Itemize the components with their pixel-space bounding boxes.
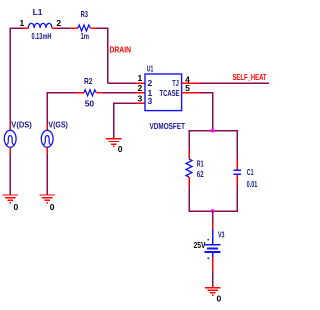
svg-text:SELF_HEAT: SELF_HEAT xyxy=(233,72,268,82)
svg-text:0: 0 xyxy=(50,202,55,212)
wire pin 5 to corner xyxy=(200,92,214,94)
resistor R3 pin 1 xyxy=(70,27,78,29)
wire drain to U1 pin 1 xyxy=(108,82,136,84)
V(DS) source pin top xyxy=(9,125,11,130)
U1 pin 4 stub xyxy=(182,82,200,84)
ground under V(DS) xyxy=(3,195,18,203)
svg-text:0: 0 xyxy=(217,294,222,304)
ground mid (0) xyxy=(106,139,121,147)
wire L1 to R3 xyxy=(58,27,70,29)
wire left vertical to V(DS) xyxy=(9,27,11,125)
ground bottom xyxy=(205,288,220,296)
V(DS) source pin bottom xyxy=(9,147,11,153)
svg-text:0: 0 xyxy=(14,202,19,212)
svg-text:TCASE: TCASE xyxy=(160,88,180,98)
wire drain vertical xyxy=(107,27,109,83)
wire tank left lower xyxy=(188,186,190,211)
wire U1 pin 3 to ground corner xyxy=(114,102,136,104)
wire down to tank top xyxy=(212,92,214,131)
capacitor C1 pin 1 xyxy=(236,159,238,170)
svg-text:R3: R3 xyxy=(81,9,89,19)
U1 pin 1 stub xyxy=(136,82,145,84)
wire tank bottom horizontal xyxy=(188,210,238,212)
svg-text:1: 1 xyxy=(138,73,143,83)
wire mid-ground vertical xyxy=(113,103,115,139)
svg-text:TJ: TJ xyxy=(172,78,179,88)
svg-text:3: 3 xyxy=(148,96,153,106)
wire tank left upper xyxy=(188,130,190,150)
wire junction to V3 xyxy=(212,211,214,222)
inductor L1 pin 2 xyxy=(52,27,58,29)
svg-text:2: 2 xyxy=(148,78,153,88)
V(GS) sine squiggle xyxy=(43,136,52,145)
wire V3 to ground xyxy=(212,270,214,287)
svg-text:0.13mH: 0.13mH xyxy=(32,31,52,41)
svg-text:50: 50 xyxy=(85,98,95,108)
capacitor C1 plates xyxy=(234,170,241,174)
svg-text:V(GS): V(GS) xyxy=(48,120,68,130)
svg-text:V3: V3 xyxy=(218,229,225,239)
wire tank right upper xyxy=(236,130,238,159)
inductor L1 pin 1 xyxy=(23,27,28,29)
svg-text:C1: C1 xyxy=(247,167,254,177)
capacitor C1 pin 2 xyxy=(236,175,238,185)
svg-text:2: 2 xyxy=(56,18,61,28)
svg-text:V(DS): V(DS) xyxy=(11,120,32,130)
V3 pin top xyxy=(212,222,214,229)
wire V(GS) to ground xyxy=(46,154,48,196)
svg-text:25V: 25V xyxy=(194,240,206,250)
V3 pin bottom xyxy=(212,258,214,271)
svg-text:L1: L1 xyxy=(33,7,43,17)
resistor R3 pin 2 xyxy=(90,27,96,29)
wire R2 to U1 pin 2 xyxy=(103,92,136,94)
resistor R1 pin 2 xyxy=(188,177,190,186)
svg-text:1: 1 xyxy=(20,18,25,28)
V(GS) source pin bottom xyxy=(46,147,48,153)
wire top-left horizontal xyxy=(10,27,24,29)
junction bottom xyxy=(211,209,215,213)
resistor R1 pin 1 xyxy=(188,150,190,159)
wire R3 to drain corner xyxy=(96,27,109,29)
ground under V(GS) xyxy=(40,195,55,203)
V(DS) source body xyxy=(4,130,16,147)
svg-text:1m: 1m xyxy=(81,31,90,41)
svg-text:5: 5 xyxy=(185,83,190,93)
svg-text:62: 62 xyxy=(197,169,204,179)
resistor R1 zigzag xyxy=(186,159,192,177)
svg-text:R2: R2 xyxy=(84,76,93,86)
V(GS) source body xyxy=(41,130,53,147)
inductor L1 coil xyxy=(28,23,52,28)
resistor R2 pin 1 xyxy=(77,92,85,94)
svg-text:0.01: 0.01 xyxy=(247,179,258,189)
svg-text:U1: U1 xyxy=(147,64,154,74)
svg-text:3: 3 xyxy=(138,94,143,104)
wire tank top horizontal xyxy=(188,130,238,132)
wire tank right lower xyxy=(236,185,238,211)
wire R2 left to corner xyxy=(47,92,76,94)
U1 pin 2 stub xyxy=(136,92,145,94)
resistor R2 pin 2 xyxy=(96,92,103,94)
svg-text:2: 2 xyxy=(138,83,143,93)
op-amp box U1 body xyxy=(145,74,182,111)
wire V(DS) to ground xyxy=(9,154,11,196)
V(DS) sine squiggle xyxy=(6,136,15,145)
svg-text:R1: R1 xyxy=(197,159,204,169)
resistor R2 zigzag xyxy=(84,90,96,96)
wire V(GS) vertical xyxy=(46,92,48,125)
U1 pin 3 stub xyxy=(136,102,145,104)
V(GS) source pin top xyxy=(46,125,48,130)
svg-text:VDMOSFET: VDMOSFET xyxy=(150,121,186,131)
resistor R3 zigzag xyxy=(78,25,90,31)
U1 pin 5 stub xyxy=(182,92,200,94)
battery V3 symbol xyxy=(205,229,221,259)
svg-text:DRAIN: DRAIN xyxy=(110,45,132,55)
svg-text:0: 0 xyxy=(118,144,123,154)
wire SELF_HEAT to right edge xyxy=(200,82,270,84)
junction top xyxy=(211,129,215,133)
